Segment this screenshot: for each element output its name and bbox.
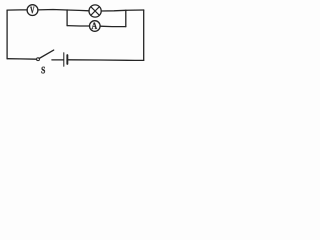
wire: bottom-left horizontal (left corner to switch pivot) xyxy=(7,58,37,61)
switch S pivot contact xyxy=(37,58,40,61)
lamp L1: cross X xyxy=(91,7,100,16)
switch label S xyxy=(42,67,45,74)
wire: battery to bottom-right corner xyxy=(68,59,143,62)
lamp L1: circle xyxy=(89,5,101,17)
switch S lever (open blade) xyxy=(39,50,54,58)
wire: parallel-branch right vertical riser xyxy=(125,10,127,26)
voltmeter V1: letter V xyxy=(30,7,34,14)
wire: switch right contact stub to battery xyxy=(52,59,63,61)
wire: right vertical side xyxy=(143,10,145,60)
wire: parallel-branch left vertical drop at junction xyxy=(66,10,68,26)
wire: voltmeter to top junction node xyxy=(38,9,67,12)
voltmeter V1: circle xyxy=(27,5,38,16)
wire: top-left horizontal (left corner to voltmeter) xyxy=(7,9,27,11)
wire: top junction to lamp xyxy=(67,9,89,12)
battery cell: short thick plate xyxy=(66,55,68,64)
wire: ammeter out to branch right riser xyxy=(100,25,126,27)
wire: branch horizontal into ammeter xyxy=(67,25,90,27)
ammeter A1: circle xyxy=(90,21,101,32)
battery cell: long thin plate xyxy=(63,53,65,66)
ammeter A1: letter A xyxy=(92,23,98,29)
wire: left vertical side xyxy=(6,10,8,59)
wire: lamp to right riser node to top-right corner xyxy=(101,10,144,11)
